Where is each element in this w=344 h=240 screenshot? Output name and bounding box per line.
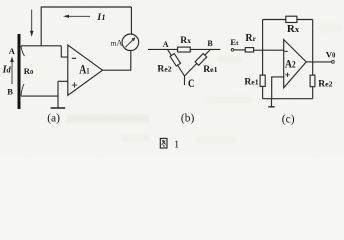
- contact arc at A: [21, 46, 25, 56]
- wire top rail: [41, 6, 132, 8]
- wire top feedback rail: [263, 19, 313, 21]
- resistor Rx (b): [178, 47, 191, 52]
- wire meter top lead: [130, 7, 132, 34]
- photocell bar R0 (element A-B): [18, 34, 21, 109]
- A1 plus sign: [72, 82, 77, 87]
- wire below Re1: [262, 86, 264, 98]
- wire A terminal horizontal: [21, 45, 61, 47]
- wire non-inverting input (c): [272, 77, 284, 99]
- current arrow I1 (left): [63, 15, 90, 18]
- meter mA: [122, 34, 139, 51]
- current arrow down (into A): [30, 10, 34, 37]
- wire Rr to summing node: [254, 49, 284, 51]
- ground (a): [51, 107, 66, 109]
- resistor Re1 (c): [260, 75, 265, 86]
- wire vertical up to top rail: [40, 7, 42, 46]
- wire left vertical (feedback/Re1 branch): [262, 20, 264, 76]
- wire output: [306, 61, 331, 63]
- resistor Re2 (b): [170, 54, 180, 66]
- paper grain overlay: [0, 0, 344, 157]
- resistor Re1 (b): [195, 54, 207, 66]
- wire non-inverting input: [58, 80, 68, 82]
- terminal Et: [231, 49, 234, 52]
- op-amp A1: [68, 45, 103, 95]
- wire stub node C: [184, 76, 186, 85]
- A2 minus sign: [284, 50, 287, 52]
- wire right vertical (output branch): [312, 20, 314, 76]
- meter needle: [125, 37, 135, 47]
- wire vertical to ground (a): [57, 81, 59, 108]
- ground (c): [268, 99, 274, 107]
- terminal V0: [332, 61, 335, 64]
- wire diagonal A-C: [168, 49, 185, 76]
- A1 minus sign: [72, 57, 76, 59]
- wire jog to inverting input: [61, 46, 68, 57]
- wire op-amp output: [103, 51, 131, 70]
- wire diagonal B-C: [185, 49, 211, 76]
- current arrow Id: [10, 57, 14, 85]
- resistor Re2 (c): [310, 75, 315, 87]
- caption 图 1: [160, 138, 167, 148]
- op-amp A2: [284, 40, 307, 88]
- scan bleed-through smudges: [66, 24, 342, 144]
- wire bottom rail (c): [263, 98, 313, 100]
- wire below Re2: [312, 87, 314, 99]
- A2 plus sign: [285, 73, 289, 77]
- resistor Rx (c): [286, 16, 297, 22]
- wire B terminal horizontal: [21, 95, 58, 97]
- contact arc at B: [21, 84, 24, 96]
- resistor Rr: [245, 48, 253, 52]
- wire bridge rail A-B: [148, 48, 220, 50]
- wire Et to Rr: [234, 49, 246, 51]
